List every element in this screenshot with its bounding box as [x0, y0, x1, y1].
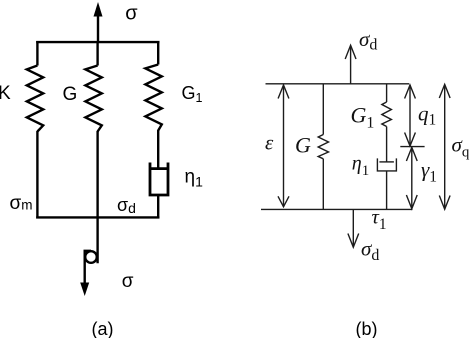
wire: left branch lower [36, 131, 38, 219]
svg-text:G1: G1 [351, 103, 375, 132]
svg-text:G: G [295, 133, 311, 158]
svg-text:(b): (b) [356, 319, 378, 338]
svg-text:ε: ε [265, 131, 274, 155]
svg-text:η1: η1 [352, 153, 369, 180]
wire: middle branch top stub [96, 41, 98, 66]
arrowhead: top sigma arrow [94, 2, 103, 17]
svg-text:σd: σd [359, 27, 377, 54]
measure arrow sigma_q (double) [444, 85, 446, 210]
wire: bottom horizontal bar (a) [36, 216, 159, 218]
svg-text:q1: q1 [418, 102, 436, 129]
arrow sigma_d (top of b) [350, 46, 352, 84]
wire: rope over pulley [85, 251, 91, 285]
arrow sigma_d (bottom of b) [352, 209, 354, 247]
wire: rod from G1 spring into dashpot [157, 130, 159, 170]
tick line between q1 and gamma1 [400, 146, 424, 148]
dashpot eta1 (b): cup [377, 158, 396, 171]
wire: left branch top stub [36, 41, 38, 66]
svg-text:σd: σd [361, 237, 379, 265]
svg-text:σ: σ [122, 271, 134, 292]
spring G (b) [318, 135, 328, 159]
wire: right branch top stub [157, 41, 159, 65]
svg-text:(a): (a) [92, 319, 114, 338]
wire: dashpot bottom rod [157, 195, 159, 219]
measure arrow epsilon (double) [283, 86, 285, 207]
dashpot eta1 cylinder [150, 163, 168, 196]
svg-text:K: K [0, 83, 11, 104]
svg-text:G1: G1 [182, 83, 203, 105]
arrowhead: bottom sigma arrow [80, 283, 89, 297]
wire: dashpot to bottom bar [386, 171, 388, 210]
svg-text:η1: η1 [185, 167, 204, 190]
wire: G branch lower [322, 159, 324, 210]
wire: top horizontal bar (a) [36, 41, 159, 43]
svg-text:σ: σ [125, 3, 138, 25]
svg-text:γ1: γ1 [421, 158, 437, 186]
svg-text:σq: σq [452, 133, 470, 161]
measure arrow q1 (double) [409, 85, 411, 146]
wire: middle branch lower (through bottom bar) [96, 131, 98, 263]
spring G1 [145, 65, 161, 131]
pulley circle [85, 251, 97, 263]
wire: rod from G1 spring to dashpot piston [386, 127, 388, 163]
measure arrow gamma1 (double) [411, 148, 413, 209]
spring G1 (b) [382, 102, 392, 127]
wire: G branch upper [322, 84, 324, 135]
wire: top horizontal bar (b) [266, 83, 410, 85]
svg-text:σm: σm [10, 193, 33, 214]
svg-text:τ1: τ1 [372, 207, 387, 233]
svg-text:G: G [63, 84, 78, 105]
wire: top sigma arrow shaft [97, 15, 99, 42]
spring G [85, 66, 101, 132]
wire: G1 branch upper [386, 84, 388, 102]
resistor/spring K [27, 66, 43, 132]
svg-text:σd: σd [117, 195, 136, 216]
wire: bottom horizontal bar (b) [261, 208, 413, 210]
dashpot eta1 (b): piston plate [379, 161, 394, 163]
